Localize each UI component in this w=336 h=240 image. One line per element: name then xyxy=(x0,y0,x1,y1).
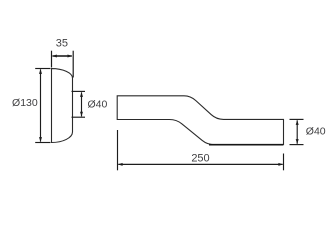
svg-text:Ø40: Ø40 xyxy=(88,99,108,111)
svg-text:Ø40: Ø40 xyxy=(306,125,326,137)
svg-text:Ø130: Ø130 xyxy=(12,97,38,109)
svg-text:35: 35 xyxy=(56,38,68,50)
svg-text:250: 250 xyxy=(191,152,209,164)
